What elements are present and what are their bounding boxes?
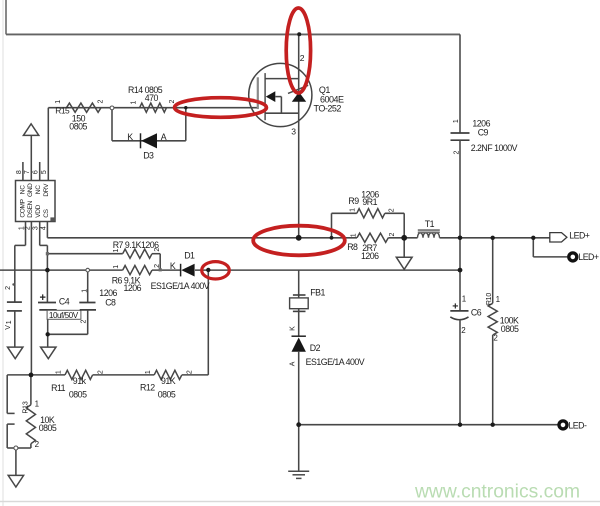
svg-text:2: 2: [98, 370, 105, 374]
svg-text:C9: C9: [478, 127, 489, 137]
svg-text:2: 2: [169, 99, 176, 103]
svg-text:470: 470: [145, 93, 159, 103]
svg-text:R11: R11: [51, 383, 66, 393]
svg-text:T1: T1: [425, 219, 435, 229]
svg-text:R8: R8: [347, 242, 358, 252]
svg-text:R10: R10: [486, 293, 493, 306]
svg-text:5: 5: [41, 170, 48, 174]
svg-text:CS: CS: [43, 208, 50, 217]
svg-text:VDD: VDD: [35, 204, 42, 217]
svg-text:A: A: [161, 132, 167, 142]
svg-text:D3: D3: [143, 150, 154, 160]
svg-text:+: +: [40, 292, 46, 304]
svg-text:2.2NF 1000V: 2.2NF 1000V: [471, 143, 518, 153]
svg-text:LED-: LED-: [568, 420, 587, 430]
svg-text:R7 9.1K1206: R7 9.1K1206: [113, 240, 159, 250]
svg-text:8: 8: [16, 170, 23, 174]
svg-text:10uf/50V: 10uf/50V: [49, 311, 79, 320]
svg-text:LED+: LED+: [569, 231, 590, 241]
svg-text:1: 1: [56, 370, 63, 374]
svg-text:1206: 1206: [361, 251, 379, 261]
svg-text:DSEN: DSEN: [27, 200, 34, 217]
svg-text:D2: D2: [310, 343, 321, 353]
svg-text:0805: 0805: [158, 389, 176, 399]
svg-text:NC: NC: [35, 185, 42, 194]
svg-text:2: 2: [97, 99, 104, 103]
svg-text:K: K: [170, 261, 176, 271]
svg-text:1: 1: [145, 370, 152, 374]
svg-text:2: 2: [389, 232, 396, 236]
svg-text:1: 1: [6, 320, 13, 324]
svg-text:4: 4: [40, 226, 47, 230]
svg-text:K: K: [127, 132, 133, 142]
svg-text:R12: R12: [140, 382, 155, 392]
svg-text:www.cntronics.com: www.cntronics.com: [414, 482, 580, 503]
svg-text:1: 1: [113, 265, 120, 269]
svg-text:V: V: [5, 325, 12, 330]
svg-text:7: 7: [24, 170, 31, 174]
svg-text:2: 2: [5, 286, 12, 290]
svg-text:2: 2: [389, 208, 396, 212]
svg-text:2: 2: [454, 150, 461, 154]
svg-text:1206: 1206: [99, 288, 117, 298]
svg-text:1: 1: [350, 208, 357, 212]
svg-text:91k: 91k: [73, 376, 87, 386]
svg-text:1: 1: [131, 100, 138, 104]
svg-text:C4: C4: [59, 297, 70, 307]
svg-text:GND: GND: [27, 183, 34, 197]
svg-text:0805: 0805: [39, 423, 57, 433]
svg-text:R9: R9: [348, 196, 359, 206]
svg-text:9R1: 9R1: [362, 197, 377, 207]
svg-text:3: 3: [33, 226, 40, 230]
svg-text:2: 2: [154, 264, 161, 268]
svg-text:2: 2: [300, 53, 305, 63]
svg-text:R13: R13: [23, 401, 30, 414]
svg-text:1206: 1206: [124, 283, 142, 293]
svg-text:0805: 0805: [69, 389, 87, 399]
svg-text:K: K: [290, 326, 297, 331]
svg-text:2: 2: [186, 370, 193, 374]
svg-text:LED+: LED+: [578, 252, 599, 262]
svg-text:1: 1: [55, 100, 62, 104]
svg-text:C6: C6: [471, 307, 482, 317]
svg-text:1: 1: [113, 248, 120, 252]
svg-text:0805: 0805: [501, 324, 519, 334]
svg-text:0805: 0805: [69, 122, 87, 132]
svg-text:3: 3: [291, 127, 296, 137]
svg-text:TO-252: TO-252: [314, 104, 342, 114]
svg-text:DRV: DRV: [43, 183, 50, 197]
svg-text:2: 2: [81, 319, 88, 323]
svg-text:FB1: FB1: [310, 287, 325, 297]
svg-text:ES1GE/1A 400V: ES1GE/1A 400V: [306, 357, 365, 367]
svg-text:COMP: COMP: [19, 199, 26, 217]
svg-text:2: 2: [154, 248, 161, 252]
svg-text:R15: R15: [55, 106, 70, 116]
svg-text:C8: C8: [105, 298, 116, 308]
svg-text:D1: D1: [184, 251, 195, 261]
svg-text:Q1: Q1: [319, 85, 331, 95]
svg-text:A: A: [290, 361, 297, 366]
svg-text:NC: NC: [19, 185, 26, 194]
svg-text:6: 6: [33, 170, 40, 174]
svg-text:+: +: [452, 301, 458, 313]
svg-text:1: 1: [82, 289, 89, 293]
svg-text:1: 1: [453, 119, 460, 123]
svg-text:ES1GE/1A 400V: ES1GE/1A 400V: [151, 281, 210, 291]
svg-text:2: 2: [24, 226, 31, 230]
svg-text:91K: 91K: [161, 376, 176, 386]
svg-text:1: 1: [351, 233, 358, 237]
